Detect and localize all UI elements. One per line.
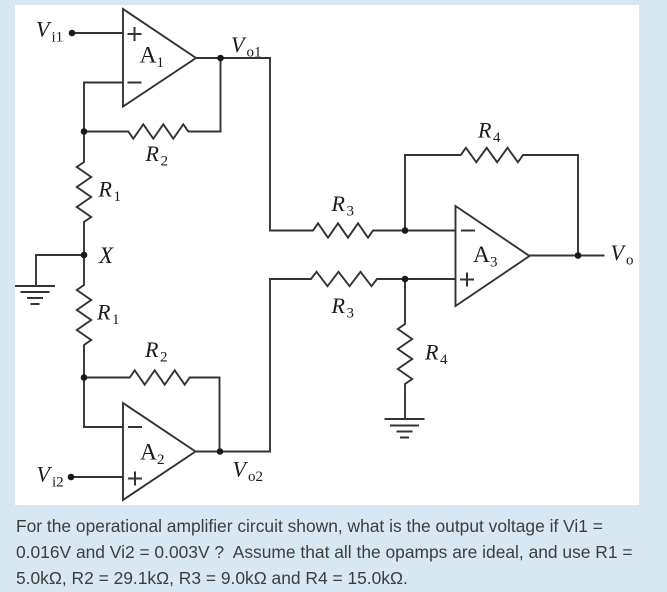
wire R3 top node to A3 - input [405, 230, 456, 232]
wire A2 output to Vo2 corner [196, 451, 271, 453]
wire A2 - input branch [84, 378, 123, 428]
A1 + input symbol [129, 28, 141, 40]
svg-text:A: A [140, 43, 157, 69]
svg-text:R: R [96, 300, 111, 325]
node X [81, 252, 88, 259]
resistor R1 (lower) [77, 255, 91, 378]
resistor R2 (top feedback) [84, 124, 221, 138]
wire A1 output to Vo1 corner [196, 57, 270, 59]
op-amp A1 triangle [123, 9, 196, 107]
node Vo [575, 252, 582, 259]
node Vo1 [217, 55, 224, 62]
svg-text:V: V [611, 240, 627, 265]
white panel [15, 5, 639, 505]
svg-text:o: o [626, 253, 634, 269]
wire R2 bottom right to A2 output node [219, 378, 221, 452]
resistor R4 (top feedback rail) [405, 148, 578, 256]
A3 + input symbol [461, 274, 473, 286]
svg-text:V: V [37, 462, 53, 487]
wire A3 output to Vo [530, 255, 604, 257]
node Vo2 [217, 448, 224, 455]
svg-text:4: 4 [440, 352, 448, 368]
svg-text:V: V [231, 32, 247, 57]
wire node X to ground [36, 255, 84, 286]
svg-text:R: R [144, 337, 159, 362]
svg-text:V: V [233, 457, 249, 482]
svg-text:X: X [98, 243, 114, 268]
wire Vo1 riser down to R3 top row [269, 58, 271, 231]
wire Vi1 to A1 + input [72, 32, 123, 34]
svg-text:o1: o1 [247, 45, 262, 61]
svg-text:V: V [36, 17, 52, 42]
node Vi1 [69, 30, 76, 37]
A3 - input symbol [462, 230, 474, 232]
resistor R4 (lower, to ground) [398, 279, 412, 419]
node A1 inverting / R2-R1 junction [81, 128, 88, 135]
wire Vi2 to A2 + input [71, 476, 123, 478]
svg-text:2: 2 [161, 154, 169, 170]
wire Vo1 node down to R2 [220, 58, 222, 132]
svg-text:o2: o2 [248, 469, 263, 485]
ground (left) [16, 286, 54, 304]
node R1-R2 lower junction [81, 374, 88, 381]
svg-text:3: 3 [490, 255, 498, 271]
question text [16, 513, 633, 591]
A2 + input symbol [129, 473, 141, 485]
svg-text:R: R [98, 177, 113, 202]
svg-text:3: 3 [347, 204, 355, 220]
A2 - input symbol [129, 426, 141, 428]
svg-text:1: 1 [157, 55, 165, 71]
node Vi2 [68, 474, 75, 481]
svg-text:A: A [140, 440, 157, 466]
A1 - input symbol [129, 82, 141, 84]
op-amp A2 triangle [123, 403, 196, 500]
ground (right) [386, 419, 424, 438]
svg-text:2: 2 [160, 350, 168, 366]
svg-text:1: 1 [114, 189, 122, 205]
svg-text:A: A [473, 242, 490, 268]
resistor R3 (bottom) [270, 272, 405, 286]
wire Vo2 riser up to R3 bottom row [269, 279, 271, 452]
op-amp A3 triangle [456, 206, 530, 306]
svg-text:i2: i2 [52, 475, 64, 491]
svg-text:1: 1 [112, 312, 120, 328]
node A3 inverting input [402, 227, 409, 234]
svg-text:3: 3 [347, 306, 355, 322]
wire A1 - input branch [84, 83, 123, 132]
resistor R2 (bottom feedback) [84, 370, 220, 384]
svg-text:R: R [477, 118, 492, 143]
node A3 non-inverting input [402, 276, 409, 283]
svg-text:4: 4 [493, 130, 501, 146]
svg-text:R: R [424, 340, 439, 365]
svg-text:2: 2 [157, 452, 165, 468]
resistor R1 (upper) [77, 132, 91, 256]
svg-text:R: R [145, 141, 160, 166]
svg-text:R: R [331, 191, 346, 216]
wire R3 bottom node to A3 + input [405, 278, 456, 280]
resistor R3 (top) [270, 223, 405, 237]
svg-text:i1: i1 [52, 30, 64, 46]
svg-text:R: R [331, 293, 346, 318]
